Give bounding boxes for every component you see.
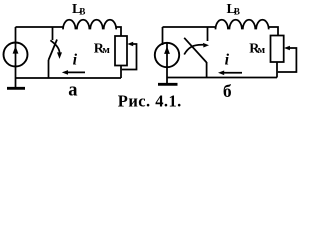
svg-text:а: а xyxy=(68,81,77,101)
svg-text:м: м xyxy=(102,44,110,56)
svg-text:В: В xyxy=(79,6,85,16)
svg-text:i: i xyxy=(225,52,230,69)
svg-text:В: В xyxy=(234,6,240,16)
svg-text:б: б xyxy=(223,81,232,101)
svg-text:м: м xyxy=(258,44,266,56)
svg-text:Рис. 4.1.: Рис. 4.1. xyxy=(118,91,182,110)
svg-text:i: i xyxy=(73,52,78,69)
